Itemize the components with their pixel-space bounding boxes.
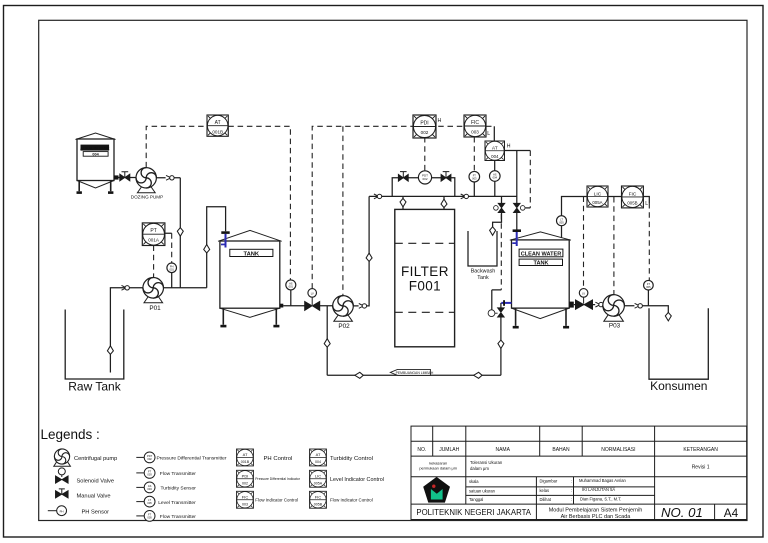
bypass manual valve right <box>441 172 451 182</box>
svg-text:003: 003 <box>147 472 152 476</box>
wire: valve A drop and backwash drain <box>493 196 502 231</box>
wire: FT003 stub to pipe <box>473 182 475 196</box>
wire: FT001A to pH sensor (dashed) <box>171 233 173 263</box>
wire: P02 control branch (dashed) <box>342 126 344 295</box>
svg-text:PDI: PDI <box>242 474 249 479</box>
svg-text:PDI: PDI <box>420 120 428 126</box>
pump P01 <box>143 278 164 303</box>
flow arrow up P02 riser <box>366 253 372 262</box>
svg-text:Tank: Tank <box>477 275 489 281</box>
svg-text:CLEAN WATER: CLEAN WATER <box>521 251 562 257</box>
svg-text:Turbidity Control: Turbidity Control <box>330 456 373 462</box>
svg-text:P02: P02 <box>338 323 350 330</box>
tank 1 inlet fitting (blue) <box>221 231 230 247</box>
svg-text:kelas: kelas <box>540 488 550 493</box>
legend PH sensor icon <box>48 506 67 516</box>
wire: valve B riser and clean tank inlet <box>516 151 518 230</box>
svg-text:005: 005 <box>646 285 651 289</box>
control valve LV005 at clean tank outlet <box>575 289 592 310</box>
legend pressure differential transmitter <box>136 452 155 463</box>
pump P02 <box>333 296 354 322</box>
svg-text:H: H <box>438 118 442 124</box>
control valve LV001 at tank outlet <box>305 289 320 311</box>
legend flow transmitter 2 <box>136 511 155 522</box>
svg-text:LV: LV <box>311 292 314 296</box>
svg-text:FIC: FIC <box>315 495 322 500</box>
svg-text:skala: skala <box>469 479 479 484</box>
title block horizontal lines <box>411 441 747 504</box>
wire: LIC005A to LV005 actuator (dashed) <box>583 197 585 289</box>
svg-text:BAHAN: BAHAN <box>552 447 570 453</box>
svg-text:Level Transmitter: Level Transmitter <box>158 500 196 506</box>
svg-text:L: L <box>645 201 648 207</box>
instrument PDI 002 <box>413 115 436 138</box>
check valve after P03 <box>635 303 643 308</box>
wire: FT001A to pump P01 (dashed) <box>153 246 155 278</box>
svg-text:Dilihat: Dilihat <box>540 497 552 502</box>
wire: AT004 to valve B pilot (dashed) <box>529 151 531 208</box>
wire: LIC to FIC link <box>608 196 622 198</box>
svg-text:Pressure Differential Transmit: Pressure Differential Transmitter <box>157 456 227 462</box>
legend flow transmitter 1 <box>136 468 155 479</box>
wire: lower solenoid pilot jog <box>492 290 502 310</box>
wire: valve B pilot link <box>525 207 530 209</box>
wire: FIC003 to AT004 link (dashed) <box>486 125 494 127</box>
svg-text:PEMBUANGAN LIMBAH: PEMBUANGAN LIMBAH <box>396 371 434 375</box>
wire: backwash solenoid drop to waste <box>500 303 502 375</box>
svg-text:001A: 001A <box>148 238 160 243</box>
svg-text:Flow Indicator Control: Flow Indicator Control <box>330 498 373 503</box>
svg-text:Manual Valve: Manual Valve <box>77 493 111 499</box>
wire: LT to LIC005A <box>562 197 588 238</box>
svg-text:001: 001 <box>289 285 294 289</box>
svg-text:FILTER: FILTER <box>401 264 449 279</box>
legend pressure differential indicator icon <box>237 470 254 487</box>
wire: dozing pump discharge <box>156 178 180 288</box>
wire: FT005 stub to pipe <box>647 290 649 306</box>
svg-text:A4: A4 <box>724 506 739 520</box>
svg-text:005B: 005B <box>627 200 637 205</box>
wire: waste drain line <box>327 374 501 376</box>
wire: AT004 output line <box>485 150 530 152</box>
instrument LIC 005A <box>587 186 608 207</box>
svg-text:DOZING PUMP: DOZING PUMP <box>131 195 163 200</box>
wire: FIC005B right corner down <box>643 197 649 204</box>
wire: filter inlet legs <box>403 196 444 209</box>
instrument FIC 003 <box>464 115 486 137</box>
FT003 circle <box>469 171 480 182</box>
check valve before P03 <box>595 302 603 307</box>
wire: PDI002 to PDT002 (dashed) <box>424 137 426 171</box>
wire: P01 discharge to riser <box>164 287 207 289</box>
wire: AT004 top stub <box>493 126 495 141</box>
svg-text:004: 004 <box>491 154 499 159</box>
svg-text:Air Berbasis PLC dan Scada: Air Berbasis PLC dan Scada <box>561 514 632 520</box>
svg-text:NORMALISASI: NORMALISASI <box>601 447 635 453</box>
svg-text:satuan ukuran: satuan ukuran <box>469 488 496 493</box>
legend level transmitter <box>136 496 155 507</box>
svg-text:NO. 01: NO. 01 <box>661 505 703 520</box>
flow arrow down filter left leg <box>400 198 406 207</box>
wire: valve A to lower solenoid pilot (dashed) <box>500 214 502 290</box>
svg-text:Flow Indicator Control: Flow Indicator Control <box>255 498 298 503</box>
backwash tank <box>468 231 497 266</box>
svg-text:004: 004 <box>315 460 321 464</box>
solenoid valve B (clean tank inlet) <box>513 203 525 212</box>
instrument FIC 005B <box>622 186 644 208</box>
wire: main filter manifold line <box>369 195 517 197</box>
check valve after dozing pump <box>166 175 174 180</box>
svg-text:JUMLAH: JUMLAH <box>439 447 459 453</box>
svg-text:Tanggal: Tanggal <box>469 497 483 502</box>
svg-text:Digambar: Digambar <box>540 479 558 484</box>
legend solenoid valve icon <box>55 468 68 484</box>
wire: TANK outlet to LV valve to P02 <box>283 305 333 307</box>
wire: FIC005B to FT005 (dashed) <box>648 203 650 280</box>
legend turbidity control icon <box>310 449 327 466</box>
wire: AS004 stub to pipe <box>494 161 496 197</box>
konsumen tank <box>649 308 708 379</box>
clean tank left outlet fitting (blue) <box>501 300 511 306</box>
svg-text:002: 002 <box>147 457 152 461</box>
svg-text:LV: LV <box>582 292 585 296</box>
instrument AT 004 <box>485 141 504 160</box>
svg-text:Muhammad Bagas Avrian: Muhammad Bagas Avrian <box>579 478 627 483</box>
svg-text:Flow Transmitter: Flow Transmitter <box>160 514 197 520</box>
flow arrow down into backwash tank <box>490 227 496 236</box>
svg-text:005B: 005B <box>314 503 323 507</box>
svg-text:PH Sensor: PH Sensor <box>82 509 110 515</box>
svg-text:002: 002 <box>421 130 429 135</box>
pump P03 <box>603 295 625 322</box>
flow arrow up filter right leg <box>441 199 447 208</box>
svg-text:001B: 001B <box>241 460 250 464</box>
instrument PT 001A <box>142 223 165 246</box>
svg-text:Dian Figana, S.T., M.T.: Dian Figana, S.T., M.T. <box>580 496 621 501</box>
svg-text:Konsumen: Konsumen <box>650 379 707 393</box>
legend flow indicator control icon 2 <box>310 491 327 508</box>
svg-text::: : <box>571 497 572 502</box>
flow arrow down on backwash solenoid drop <box>498 340 504 349</box>
flow arrow up P01 riser <box>204 245 210 254</box>
svg-text:FIC: FIC <box>242 495 249 500</box>
legend manual valve icon <box>55 489 68 498</box>
svg-text:Modul Pembelajaran Sistem Penj: Modul Pembelajaran Sistem Penjernih <box>549 508 643 514</box>
wire: P02 suction drop to waste line <box>326 306 328 376</box>
svg-text:Turbidity Sensor: Turbidity Sensor <box>161 486 197 492</box>
svg-text:003: 003 <box>471 129 479 134</box>
svg-text:003: 003 <box>242 503 248 507</box>
svg-text::: : <box>571 488 572 493</box>
wire: bypass loop over filter <box>392 178 455 197</box>
svg-text:002: 002 <box>422 177 427 181</box>
svg-text:004: 004 <box>147 487 152 491</box>
svg-text:005A: 005A <box>314 482 323 486</box>
legend flow indicator control icon 1 <box>237 491 254 508</box>
PDT 002 circle <box>418 171 431 184</box>
svg-text:Pressure Differential Indicato: Pressure Differential Indicator <box>255 477 300 481</box>
svg-text:KETERANGAN: KETERANGAN <box>683 447 718 453</box>
pH sensor circle at P01 <box>167 263 177 273</box>
svg-text:F001: F001 <box>409 278 441 293</box>
svg-text:Centrifugal pump: Centrifugal pump <box>74 456 117 462</box>
wire: riser P01 to TANK inlet <box>207 207 226 288</box>
svg-text:TANK: TANK <box>243 251 259 257</box>
legend turbidity sensor <box>136 482 155 493</box>
wire: FIC005B to pump P03 (dashed) <box>613 197 615 295</box>
svg-text:LIC: LIC <box>594 191 602 197</box>
wire: P02 discharge riser to main line <box>353 196 369 306</box>
svg-text:005: 005 <box>147 515 152 519</box>
svg-text:Flow Transmitter: Flow Transmitter <box>160 471 197 477</box>
svg-text:FIC: FIC <box>471 120 479 126</box>
flow arrow up raw tank riser <box>107 346 113 355</box>
svg-text:Solenoid Valve: Solenoid Valve <box>77 478 115 484</box>
svg-text:004: 004 <box>92 153 99 157</box>
svg-text:Toleransi Ukuran: Toleransi Ukuran <box>470 460 503 465</box>
backwash solenoid valve (clean tank drain) <box>488 308 504 317</box>
svg-text:PT: PT <box>150 228 156 234</box>
instrument AT 001B <box>207 115 228 136</box>
svg-text:002: 002 <box>242 482 248 486</box>
FT005 circle <box>644 280 654 290</box>
svg-text:Raw Tank: Raw Tank <box>68 380 121 394</box>
svg-text:Legends :: Legends : <box>41 427 100 442</box>
svg-text:005: 005 <box>559 220 564 224</box>
wire: dozing pump control riser (dashed) <box>146 126 207 167</box>
wire: P01 suction from raw tank riser <box>110 288 142 373</box>
title block outer box <box>411 426 747 519</box>
svg-text:AT: AT <box>243 452 248 457</box>
svg-text:NO.: NO. <box>417 447 426 453</box>
legend PH control icon <box>237 449 254 466</box>
logo politeknik <box>423 477 450 503</box>
wire: tank outlet sensor stub <box>290 290 292 306</box>
waste banner flag <box>390 369 434 375</box>
title block vertical lines <box>433 426 715 519</box>
flow arrow down on dosing drop <box>177 228 183 237</box>
svg-text:AT: AT <box>316 452 321 457</box>
check valve on main line before valves <box>461 194 469 199</box>
svg-text:PH: PH <box>60 509 64 513</box>
legend centrifugal pump icon <box>54 449 71 466</box>
svg-text:005: 005 <box>147 501 152 505</box>
svg-text:POLITEKNIK NEGERI JAKARTA: POLITEKNIK NEGERI JAKARTA <box>416 508 531 517</box>
dozing pump <box>136 168 156 193</box>
svg-text:ALKALIN TANK: ALKALIN TANK <box>80 146 110 151</box>
svg-text:001B: 001B <box>212 129 223 134</box>
svg-text:P03: P03 <box>609 323 621 330</box>
svg-text:TANK: TANK <box>533 261 548 267</box>
svg-text::: : <box>571 479 572 484</box>
check valve after P02 <box>359 304 367 309</box>
svg-text:003: 003 <box>472 176 477 180</box>
svg-text:AT: AT <box>215 120 221 126</box>
check valve on P01 suction <box>122 285 130 290</box>
LT005 circle <box>557 216 567 226</box>
svg-text:H: H <box>507 144 511 150</box>
svg-text:001: 001 <box>170 267 175 271</box>
wire: clean tank outlet to valve to P03 <box>574 304 603 306</box>
title block sub row lines <box>466 487 655 496</box>
svg-text:Backwash: Backwash <box>471 269 496 275</box>
svg-text:LIC: LIC <box>315 474 321 479</box>
svg-text:005A: 005A <box>592 200 602 205</box>
check valve on main line at riser <box>374 194 382 199</box>
svg-text:Level Indicator Control: Level Indicator Control <box>330 477 384 483</box>
wire: LV001 actuator to controller line (dashed) <box>312 126 464 288</box>
wire: AT001B to tank outlet sensor (dashed) <box>228 126 290 280</box>
flow arrow down into konsumen <box>665 312 671 321</box>
svg-text:FIC: FIC <box>629 191 637 197</box>
TANK (tank 1) <box>218 230 283 327</box>
wire: pH sensor stub P01 line <box>165 233 171 288</box>
svg-text:L: L <box>487 131 490 137</box>
clean tank inlet fitting (blue) <box>512 229 521 246</box>
svg-text:004: 004 <box>493 176 498 180</box>
svg-text:AT: AT <box>492 145 498 151</box>
svg-text:P01: P01 <box>149 305 161 312</box>
wire: FIC003 to FT003 (dashed) <box>473 137 475 171</box>
svg-text:PH Control: PH Control <box>264 456 293 462</box>
svg-text:permukaan dalam μm: permukaan dalam μm <box>419 466 457 471</box>
svg-text:Revisi 1: Revisi 1 <box>692 465 710 471</box>
legend level indicator control icon <box>310 470 327 487</box>
solenoid valve A (backwash drain) <box>494 203 505 212</box>
raw tank <box>65 310 124 380</box>
wire: P03 discharge to konsumen <box>624 306 668 315</box>
bypass manual valve left <box>398 172 408 182</box>
alkalin tank T004 <box>76 133 119 194</box>
AS004 circle <box>490 171 501 182</box>
wire: alkalin tank to valve to dozing pump <box>119 177 137 179</box>
clean water tank <box>510 232 574 329</box>
manual valve at alkalin tank <box>120 172 130 181</box>
svg-text:NAMA: NAMA <box>495 447 510 453</box>
svg-text:dalam μm: dalam μm <box>470 466 489 471</box>
level sensor circle at tank outlet <box>286 280 296 290</box>
waste line left arrows <box>355 372 364 378</box>
filter F001 <box>395 209 455 346</box>
flow arrow up backwash suction <box>324 339 330 348</box>
svg-text:IKI LANJUTAN 5A: IKI LANJUTAN 5A <box>582 487 615 492</box>
